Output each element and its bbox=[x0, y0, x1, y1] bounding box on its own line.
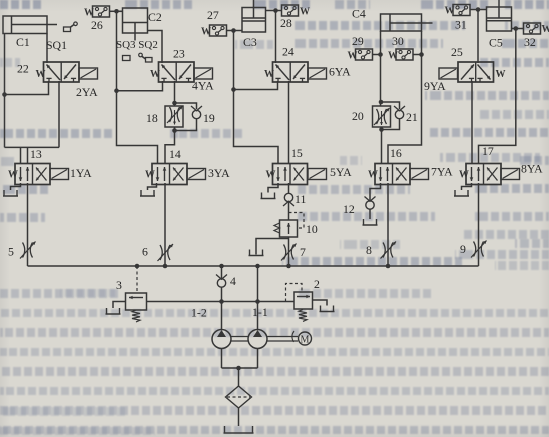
valve 24 bbox=[273, 62, 309, 82]
solenoid 6YA of valve 24 bbox=[308, 68, 327, 79]
svg-text:W: W bbox=[388, 51, 398, 62]
shaft to motor bbox=[267, 336, 298, 338]
svg-text:W: W bbox=[201, 27, 211, 38]
svg-text:2: 2 bbox=[314, 277, 320, 291]
svg-text:9YA: 9YA bbox=[424, 79, 446, 93]
solenoid 3YA of valve 14 bbox=[187, 169, 206, 180]
svg-text:20: 20 bbox=[352, 109, 364, 123]
wire pump suction 1-2 bbox=[221, 349, 223, 369]
svg-text:C1: C1 bbox=[16, 35, 30, 49]
tank under valve 17 bbox=[454, 190, 469, 196]
wire valve30 to C4 right line bbox=[413, 54, 422, 56]
pilot valve 27 bbox=[210, 25, 227, 36]
svg-text:24: 24 bbox=[282, 45, 294, 59]
tank of valve 2 bbox=[320, 306, 335, 312]
node suction join bbox=[236, 366, 241, 371]
wire manifold valve13 bbox=[5, 146, 60, 148]
wire C1 rod-side down bbox=[4, 34, 6, 148]
svg-text:W: W bbox=[459, 170, 469, 181]
node bus 8 bbox=[386, 264, 391, 269]
check valve 21 bypass wire bbox=[381, 102, 400, 109]
svg-text:28: 28 bbox=[280, 16, 292, 30]
pilot valve 31 bbox=[453, 5, 470, 16]
node j28 bbox=[273, 8, 278, 13]
pilot wire to valve 3 bbox=[136, 266, 138, 293]
wire valve29 to C4 left line bbox=[373, 54, 381, 56]
svg-text:6YA: 6YA bbox=[329, 65, 351, 79]
pump 1-1 bbox=[248, 330, 267, 349]
wire valve13 port B bbox=[27, 147, 29, 164]
node j20 bottom bbox=[379, 127, 384, 132]
svg-text:W: W bbox=[300, 7, 310, 18]
relief valve 3 bbox=[126, 293, 147, 310]
svg-text:16: 16 bbox=[390, 146, 402, 160]
throttle 9 bbox=[474, 242, 476, 257]
wire valve26 to node bbox=[110, 10, 123, 12]
filter bbox=[226, 386, 252, 408]
wire valve13 P down bbox=[27, 183, 29, 266]
svg-text:23: 23 bbox=[173, 47, 185, 61]
wire suction join bbox=[222, 367, 258, 369]
wire 19 to bottom loop bbox=[175, 118, 197, 131]
limit switch SQ3 bbox=[123, 56, 131, 61]
wire trunk a down bbox=[116, 11, 118, 90]
valve 25 bbox=[458, 62, 494, 82]
solenoid 5YA of valve 15 bbox=[308, 169, 327, 180]
valve 22 bbox=[44, 62, 80, 82]
svg-text:W: W bbox=[264, 69, 274, 80]
throttle 8 bbox=[383, 243, 385, 258]
node j32 bbox=[514, 26, 519, 31]
svg-text:31: 31 bbox=[455, 18, 467, 32]
wire check4 riser bbox=[221, 266, 223, 279]
svg-text:W: W bbox=[496, 69, 506, 80]
wire valve14 P down bbox=[164, 183, 166, 266]
svg-text:19: 19 bbox=[203, 111, 215, 125]
node j27 bbox=[231, 28, 236, 33]
check valve 19 bypass wire bbox=[175, 103, 197, 109]
pump 1-2 bbox=[212, 330, 231, 349]
flow control 18 bbox=[165, 106, 183, 127]
svg-text:3YA: 3YA bbox=[208, 166, 230, 180]
wire valve31 to C5 bbox=[470, 9, 487, 11]
throttle 5 bbox=[23, 243, 25, 258]
solenoid 4YA of valve 23 bbox=[194, 68, 213, 79]
wire valve14 T to tank bbox=[148, 183, 157, 190]
cylinder C5 bbox=[487, 7, 512, 31]
svg-text:21: 21 bbox=[406, 110, 418, 124]
cylinder C1 bbox=[3, 16, 47, 34]
check valve 19 bbox=[192, 110, 200, 118]
wire valve13 port A bbox=[20, 147, 22, 164]
solenoid 2YA of valve 22 bbox=[79, 68, 98, 79]
pilot valve 28 bbox=[282, 5, 299, 16]
wire valve24 P to valve15 B bbox=[288, 81, 290, 164]
flow control 20 bbox=[373, 106, 391, 127]
svg-text:15: 15 bbox=[291, 146, 303, 160]
svg-text:10: 10 bbox=[306, 222, 318, 236]
svg-text:W: W bbox=[368, 170, 378, 181]
wire trunk-a to valve14 A bbox=[117, 91, 158, 164]
svg-text:25: 25 bbox=[451, 45, 463, 59]
tank under check 12 bbox=[363, 219, 378, 225]
check valve 4 bbox=[217, 279, 225, 287]
svg-text:17: 17 bbox=[482, 144, 494, 158]
node bus pump bbox=[255, 264, 260, 269]
svg-text:13: 13 bbox=[30, 147, 42, 161]
node bus 6 bbox=[163, 264, 168, 269]
node j30 bbox=[419, 52, 424, 57]
wire valve2 to tank bbox=[313, 300, 328, 306]
throttle 6 bbox=[160, 245, 162, 260]
relief valve 2 bbox=[294, 292, 313, 309]
svg-text:29: 29 bbox=[352, 34, 364, 48]
svg-text:1-1: 1-1 bbox=[252, 305, 268, 319]
wire pump1-2 riser bbox=[221, 302, 223, 330]
svg-text:12: 12 bbox=[343, 202, 355, 216]
wire filter to tank bbox=[238, 408, 240, 426]
node j20 top bbox=[379, 100, 384, 105]
svg-text:30: 30 bbox=[392, 34, 404, 48]
main tank bbox=[224, 426, 254, 433]
wire to filter bbox=[238, 368, 240, 386]
wire C3 to node j28 bbox=[266, 10, 282, 12]
valve 23 bbox=[159, 62, 195, 82]
wire valve10 to throttle7 bbox=[288, 237, 290, 266]
sequence valve 10 bbox=[280, 220, 298, 237]
wire C4 right chamber to valve16 B bbox=[388, 31, 422, 164]
wire pump1-1 riser bbox=[257, 266, 259, 330]
valve 16 bbox=[375, 164, 410, 185]
svg-text:W: W bbox=[150, 69, 160, 80]
cylinder C4 bbox=[381, 14, 422, 31]
solenoid 8YA of valve 17 bbox=[501, 169, 520, 180]
solenoid 7YA of valve 16 bbox=[410, 169, 429, 180]
spring of valve 2 bbox=[299, 310, 307, 322]
svg-text:2YA: 2YA bbox=[76, 85, 98, 99]
svg-text:C2: C2 bbox=[148, 10, 162, 24]
wire C4 left chamber down bbox=[380, 31, 382, 106]
svg-text:27: 27 bbox=[207, 8, 219, 22]
solenoid 9YA of valve 25 bbox=[439, 68, 458, 79]
spring of valve 3 bbox=[132, 310, 140, 322]
svg-text:C3: C3 bbox=[243, 35, 257, 49]
wire C1 head to valve22 A bbox=[46, 34, 48, 64]
solenoid 1YA of valve 13 bbox=[50, 169, 69, 180]
svg-text:5: 5 bbox=[8, 245, 14, 259]
node j29 bbox=[378, 52, 383, 57]
svg-text:6: 6 bbox=[142, 245, 148, 259]
node trunk-b mid bbox=[231, 87, 236, 92]
svg-text:1YA: 1YA bbox=[70, 166, 92, 180]
svg-text:32: 32 bbox=[524, 35, 536, 49]
main pressure bus bbox=[28, 265, 479, 267]
wire C2 bottom to valve23 A bbox=[148, 31, 163, 64]
svg-text:8: 8 bbox=[366, 243, 372, 257]
wire valve23 P down bbox=[174, 81, 176, 106]
svg-text:M: M bbox=[301, 335, 310, 346]
svg-text:C4: C4 bbox=[352, 7, 366, 21]
pilot valve 29 bbox=[356, 49, 373, 60]
wire valve16 P down bbox=[387, 183, 389, 266]
throttle 7 bbox=[284, 245, 286, 260]
svg-text:8YA: 8YA bbox=[521, 162, 543, 176]
pilot valve 26 bbox=[93, 6, 110, 17]
wire 21 to bottom loop bbox=[382, 118, 400, 130]
motor M bbox=[299, 332, 312, 345]
svg-text:W: W bbox=[542, 24, 549, 35]
svg-text:3: 3 bbox=[116, 278, 122, 292]
pilot valve 32 bbox=[524, 23, 541, 34]
wire valve22 P down bbox=[58, 81, 60, 147]
svg-text:4YA: 4YA bbox=[192, 79, 214, 93]
svg-text:W: W bbox=[36, 69, 46, 80]
svg-text:5YA: 5YA bbox=[330, 165, 352, 179]
pilot loop of valve 2 bbox=[286, 284, 303, 302]
limit switch SQ1 bbox=[64, 27, 71, 32]
tank under valve 13 bbox=[3, 190, 18, 196]
wire check11 to valve10 bbox=[288, 201, 290, 220]
wire valve22 T to C1 rod line bbox=[5, 81, 49, 95]
cylinder C2 bbox=[123, 8, 148, 33]
wire 18 to valve14 B bbox=[165, 131, 175, 165]
tank under valve 14 bbox=[140, 190, 155, 196]
svg-text:7: 7 bbox=[300, 245, 306, 259]
svg-text:14: 14 bbox=[169, 147, 181, 161]
node bus 3 bbox=[135, 264, 140, 269]
wire valve17 T to tank bbox=[462, 183, 472, 190]
svg-text:9: 9 bbox=[460, 242, 466, 256]
wire valve27 to C3 bbox=[227, 30, 243, 32]
wire valve16 T down bbox=[370, 183, 381, 201]
svg-text:4: 4 bbox=[230, 274, 236, 288]
valve 17 bbox=[466, 164, 501, 185]
node pump1-1 top bbox=[255, 299, 260, 304]
cylinder C3 bbox=[242, 8, 266, 33]
node j18 top bbox=[172, 101, 177, 106]
wire valve17 P down bbox=[478, 183, 480, 266]
pilot line of valve 10 bbox=[289, 213, 305, 229]
tank under valve 15 bbox=[261, 193, 276, 199]
svg-text:W: W bbox=[266, 170, 276, 181]
wire j26 to C2 bbox=[117, 10, 123, 12]
wire check4 down bbox=[221, 287, 223, 302]
wire valve24 T to trunk b bbox=[234, 81, 278, 90]
node j18 bottom bbox=[172, 128, 177, 133]
wire pump suction 1-1 bbox=[257, 349, 259, 369]
check valve 11 bbox=[284, 193, 292, 201]
wire valve25 bottom to valve17 A bbox=[471, 81, 473, 164]
svg-text:11: 11 bbox=[295, 192, 306, 206]
svg-text:22: 22 bbox=[17, 62, 29, 76]
wire trunk-a to valve23 T bbox=[117, 81, 163, 91]
wire trunk-b to valve15 A bbox=[234, 90, 279, 165]
svg-text:1-2: 1-2 bbox=[191, 306, 207, 320]
svg-text:W: W bbox=[145, 170, 155, 181]
wire valve15 P down bbox=[288, 183, 290, 194]
svg-text:SQ1: SQ1 bbox=[46, 38, 67, 52]
wire trunk b down bbox=[233, 31, 235, 90]
node j26 bbox=[114, 9, 119, 14]
valve 15 bbox=[273, 164, 308, 185]
wire check12 to tank bbox=[369, 209, 371, 220]
wire valve3 to pump line bbox=[147, 301, 295, 303]
wire C5/32 to valve17 B bbox=[479, 29, 516, 165]
wire valve3 to tank bbox=[113, 302, 126, 309]
wire j28 to valve24 top bbox=[275, 11, 277, 64]
check valve 12 bbox=[366, 201, 374, 209]
tank of valve 3 bbox=[106, 308, 121, 314]
shaft pumps bbox=[231, 336, 248, 338]
pilot valve 30 bbox=[396, 49, 413, 60]
wire 18 bottom bbox=[174, 127, 176, 131]
node C1 rod line junction bbox=[2, 92, 7, 97]
svg-text:W: W bbox=[445, 6, 455, 17]
tank above pump line bbox=[249, 250, 264, 256]
wire drain to tank bbox=[256, 239, 289, 255]
svg-text:26: 26 bbox=[91, 18, 103, 32]
valve 13 bbox=[15, 164, 50, 185]
node j31 bbox=[476, 7, 481, 12]
svg-text:7YA: 7YA bbox=[431, 165, 453, 179]
node bus 4 bbox=[219, 264, 224, 269]
wire valve15 T to tank bbox=[268, 183, 278, 193]
wire 20 to valve16 A bbox=[381, 127, 383, 164]
wire C5 right to valve32 bbox=[512, 28, 524, 30]
node trunk-a mid bbox=[114, 88, 119, 93]
svg-text:W: W bbox=[348, 51, 358, 62]
node pump1-2 top bbox=[219, 299, 224, 304]
wire valve13 T to tank bbox=[11, 183, 21, 190]
wire j31 down to valve25 top bbox=[477, 10, 479, 64]
check valve 21 bbox=[395, 110, 403, 118]
svg-text:W: W bbox=[8, 170, 18, 181]
svg-text:W: W bbox=[84, 8, 94, 19]
limit switch SQ2 bbox=[139, 53, 143, 57]
svg-text:18: 18 bbox=[146, 111, 158, 125]
node bus 7 bbox=[286, 264, 291, 269]
valve 14 bbox=[152, 164, 187, 185]
svg-text:SQ3 SQ2: SQ3 SQ2 bbox=[116, 39, 158, 51]
svg-text:C5: C5 bbox=[489, 36, 503, 50]
